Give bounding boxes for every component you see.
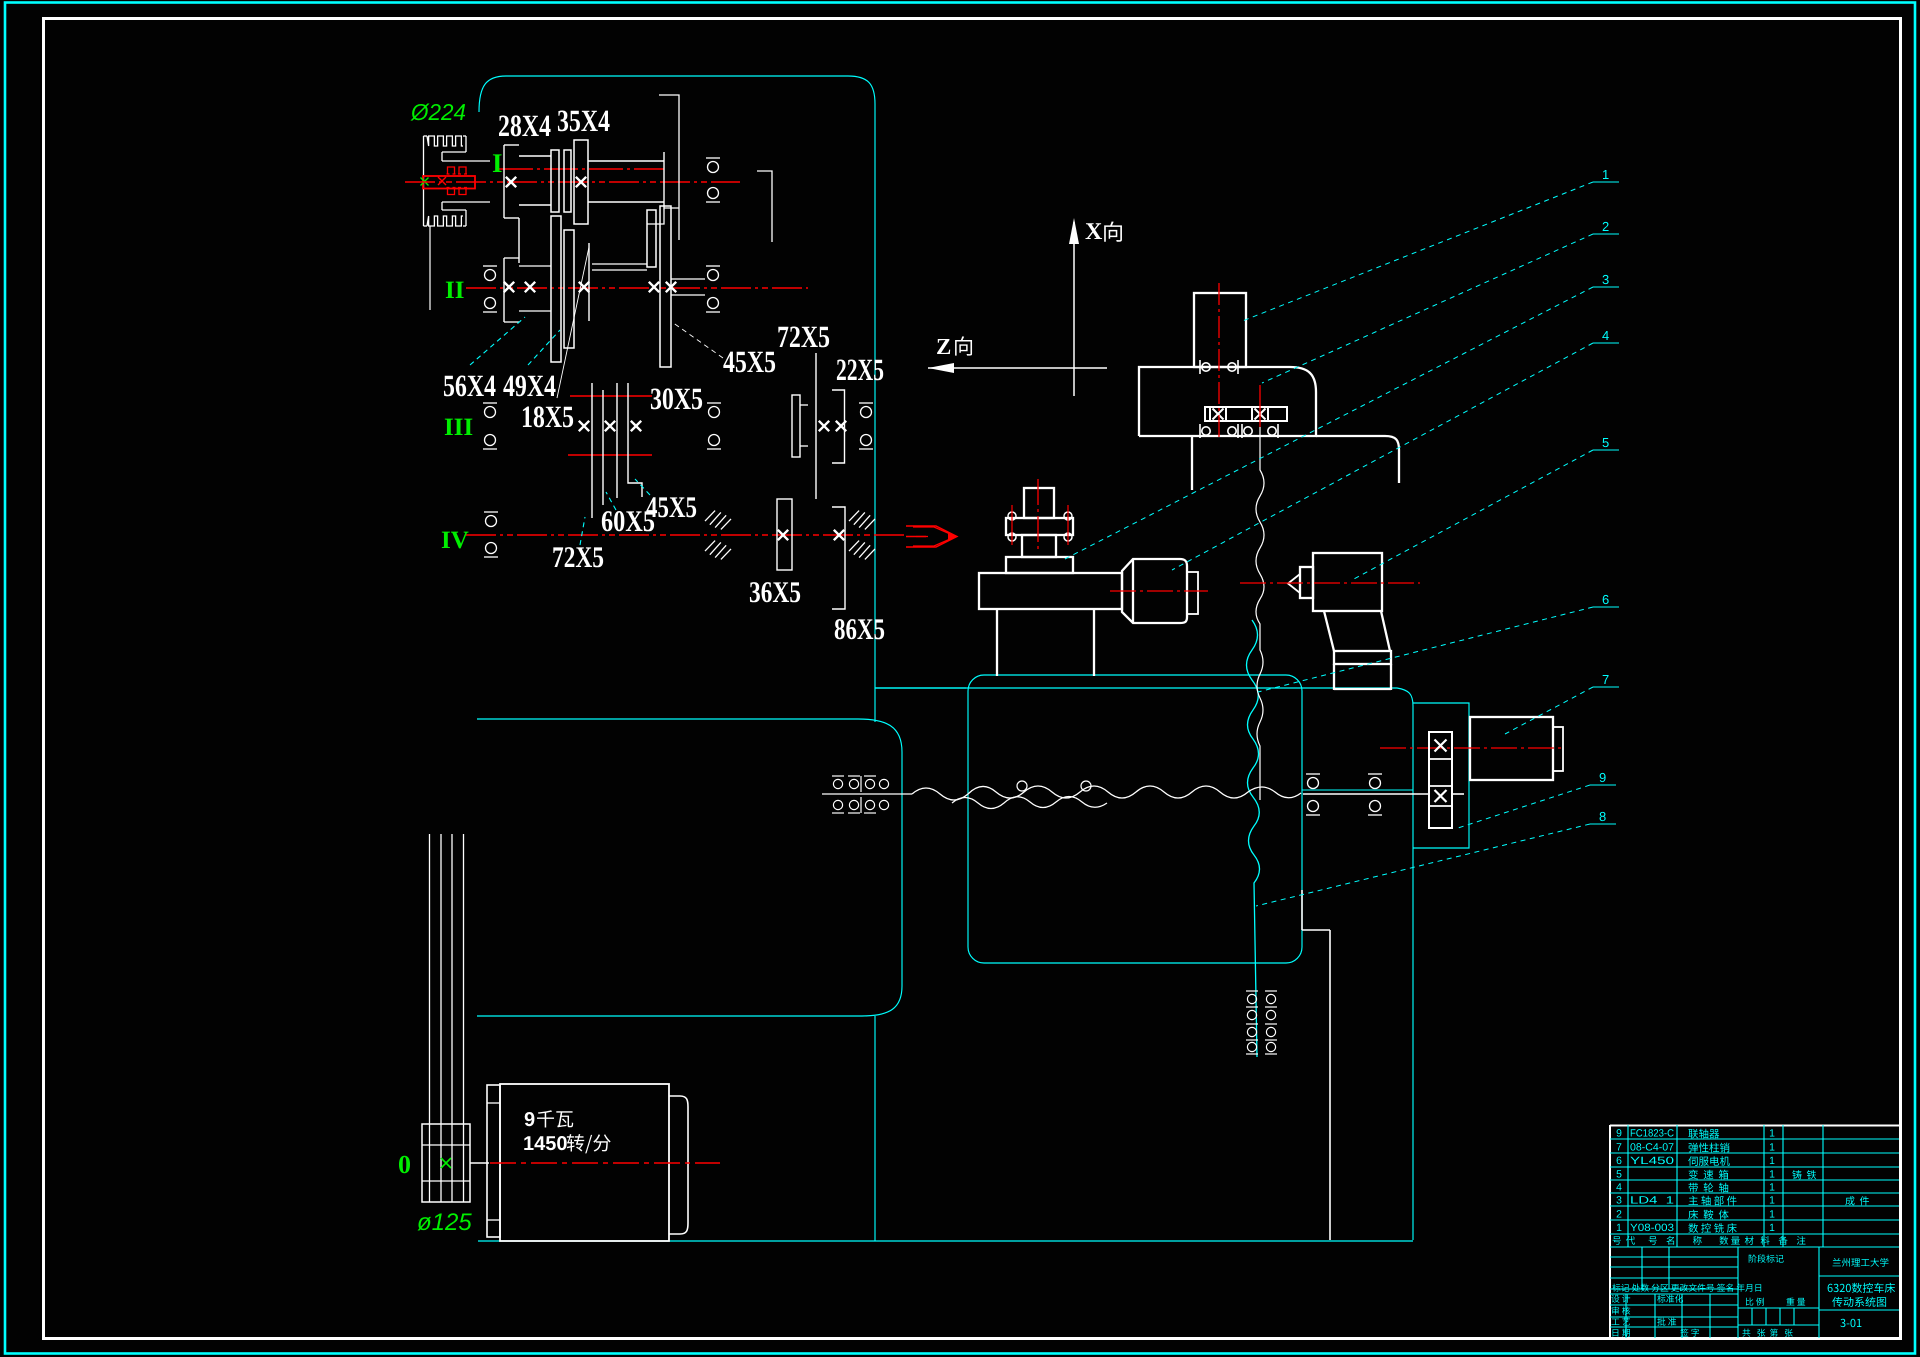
bolt: [1008, 512, 1016, 541]
bearing X: [605, 421, 615, 431]
green cross pulley: [441, 1158, 451, 1168]
shaft I flange: [503, 145, 505, 218]
gear 49X4: [564, 230, 574, 348]
bearing X: [1435, 790, 1447, 802]
leader 7: [1505, 687, 1619, 734]
shaft I end: [663, 152, 665, 210]
Z feed motor: [1470, 717, 1553, 780]
tailstock arm block: [1334, 651, 1391, 664]
hub: [519, 265, 551, 267]
label 30X5: [651, 388, 702, 409]
nut bearing: [1200, 424, 1210, 438]
bearing: [483, 298, 497, 313]
label 28X4: [499, 115, 551, 136]
bed right wall outline: [875, 688, 1413, 1240]
helical gear mark: [705, 538, 732, 562]
nut cell 1: [1210, 407, 1226, 421]
leader 56X4: [470, 317, 525, 365]
leader 45X5 lower: [635, 479, 650, 495]
X arrow: [1069, 218, 1079, 244]
bearing: [1306, 774, 1320, 789]
gear 72X5 tall line: [815, 353, 817, 499]
tailstock body: [1313, 553, 1382, 611]
pulley left edge: [423, 136, 425, 226]
label 45X5 upper: [723, 352, 775, 373]
bearing X: [649, 282, 659, 292]
Z arrow: [928, 363, 954, 373]
bolt centerline: [1011, 505, 1013, 545]
tailstock column top: [1302, 929, 1330, 931]
Z axis label: [937, 339, 950, 354]
feed bearing: [848, 776, 860, 813]
bearing: [707, 403, 721, 418]
housing leg left: [996, 609, 998, 676]
leader 9: [1458, 785, 1616, 828]
gear 86X5: [832, 507, 845, 609]
chuck base: [1006, 557, 1073, 573]
chuck centerline: [1037, 479, 1039, 549]
pulley shaft stub: [470, 1162, 489, 1164]
ballscrew nut housing: [1205, 407, 1287, 421]
label 1450rpm: [567, 1134, 611, 1153]
slide right ledge: [1316, 436, 1399, 483]
leader 4: [1172, 343, 1619, 570]
bearing: [706, 188, 720, 203]
shaft III upper red: [570, 395, 652, 397]
red belt section: [423, 176, 475, 189]
pulley hub bottom: [442, 209, 466, 211]
shaft II centerline: [466, 287, 808, 289]
helical gear mark: [849, 538, 876, 562]
gear 30X5 on II: [647, 210, 656, 267]
leadscrew wavy break: [912, 786, 1301, 800]
bearing: [706, 158, 720, 173]
shaft I body top: [588, 160, 664, 162]
collar left: [588, 243, 590, 321]
red bearing mark: [447, 188, 456, 195]
headstock right edge lower: [874, 686, 876, 722]
label 86X5: [835, 619, 884, 639]
machine base line: [478, 1240, 1413, 1242]
shaft III label: [445, 419, 473, 435]
title block left edge: [1609, 1125, 1611, 1338]
pulley V-grooves bottom: [427, 216, 463, 226]
X screw centerline: [1218, 283, 1220, 441]
bearing X: [525, 282, 535, 292]
bearing X: [836, 421, 846, 431]
green cross: [421, 178, 429, 186]
nut bearing: [1200, 360, 1210, 374]
bearing X: [834, 530, 844, 540]
shaft IV centerline: [466, 534, 905, 536]
bolt: [1064, 512, 1072, 541]
shaft II label: [446, 282, 464, 298]
hub to shaft bottom: [442, 201, 490, 203]
leader 18X5: [557, 247, 589, 398]
pulley lower line: [429, 226, 431, 310]
bearing: [483, 435, 497, 450]
nut bearing: [1242, 424, 1252, 438]
spindle arrow: [906, 526, 957, 547]
bearing: [1368, 774, 1382, 789]
label 72X5 lower: [553, 547, 603, 567]
gear 56X4: [551, 216, 561, 362]
bearing: [1306, 801, 1320, 816]
leader 60X5: [606, 492, 616, 510]
pulley right edge bottom: [465, 210, 467, 226]
leader 8: [1256, 824, 1616, 906]
tailstock center point: [1288, 574, 1300, 593]
red bearing mark: [458, 167, 467, 174]
spindle motor block: [1122, 559, 1187, 623]
pulley dia 125: [418, 1213, 472, 1230]
bolt centerline: [1067, 505, 1069, 545]
label 22X5: [837, 359, 883, 380]
feed bearing: [832, 776, 844, 813]
gear 22X5 bracket: [832, 390, 845, 463]
leadscrew wavy second strand: [952, 797, 1107, 809]
label 56X4: [444, 375, 496, 396]
headstock housing outline: [479, 76, 875, 686]
X axis line: [1073, 222, 1075, 396]
motor pulley: [422, 1124, 470, 1202]
nut bearing: [1228, 360, 1238, 374]
housing leg right: [1093, 609, 1095, 676]
bearing: [707, 435, 721, 450]
bearing: [706, 266, 720, 281]
leader 1: [1240, 182, 1619, 322]
shaft II flange: [503, 258, 505, 322]
bearing X: [1435, 740, 1447, 752]
tailstock arm: [1324, 611, 1390, 651]
carriage saddle outline: [968, 675, 1302, 963]
shaft O label: [399, 1156, 410, 1174]
pulley hub line top: [422, 1144, 470, 1146]
shaft I body bottom: [588, 201, 664, 203]
motor centerline: [490, 1162, 720, 1164]
label 9kW: [537, 1110, 573, 1127]
shaft I label: [493, 154, 502, 172]
bearing X: [778, 530, 788, 540]
bearing: [483, 266, 497, 281]
tool arrow symbol: [913, 527, 956, 546]
bearing: [706, 298, 720, 313]
tailstock column edge: [1329, 930, 1331, 1240]
bearing X: [579, 421, 589, 431]
leader 6: [1258, 607, 1619, 692]
bearing: [1368, 801, 1382, 816]
bearing X: [1213, 409, 1224, 420]
chuck flange: [1006, 518, 1073, 535]
belt line: [440, 834, 442, 1202]
label 36X5: [750, 582, 800, 602]
bearing: [859, 403, 873, 418]
gear 28X4: [551, 150, 559, 212]
screw end bearings: [1265, 991, 1277, 1054]
base left vertical: [874, 1016, 876, 1241]
bearing X: [666, 282, 676, 292]
shaft I upper line: [499, 168, 664, 170]
bearing X: [631, 421, 641, 431]
chuck stem: [1022, 535, 1056, 557]
bearing X: [579, 282, 589, 292]
leader 2: [1262, 234, 1619, 383]
leadscrew bearing block: [1429, 732, 1452, 828]
bed top line: [875, 687, 966, 689]
shaft I centerline: [405, 181, 740, 183]
shaft IV label: [442, 532, 469, 549]
X axis label: [1085, 223, 1102, 239]
slide left leg: [1191, 436, 1193, 490]
tailstock arm base: [1334, 688, 1391, 690]
leadscrew right end: [1303, 793, 1429, 795]
hub to shaft top: [442, 160, 490, 162]
label 18X5: [523, 406, 573, 427]
gear on III right: [792, 395, 800, 457]
tailstock column link: [1301, 890, 1303, 930]
Z motor end: [1553, 727, 1563, 771]
screw end bearings: [1246, 991, 1258, 1054]
leader 3: [1063, 287, 1619, 560]
leader 49X4: [528, 330, 560, 365]
feed gearbox housing outline: [477, 719, 902, 1016]
label 60X5: [602, 511, 654, 531]
helical gear mark: [849, 508, 876, 532]
title block grid: [1610, 1125, 1899, 1338]
pulley hub line bottom: [422, 1180, 470, 1182]
hub line: [519, 204, 551, 206]
red bearing mark: [458, 188, 467, 195]
pulley V-grooves top: [427, 136, 463, 146]
gear 45X5 step: [628, 383, 642, 497]
hub line: [519, 155, 551, 157]
title block top edge: [1610, 1125, 1899, 1127]
parts list text: [1617, 1129, 1622, 1136]
bearing: [483, 403, 497, 418]
Z axis line: [928, 367, 1107, 369]
belt line: [451, 834, 453, 1202]
screw break line down: [1256, 427, 1264, 800]
label 72X5 upper: [778, 326, 829, 347]
bearing X: [819, 421, 829, 431]
motor end bell: [669, 1096, 688, 1234]
Z motor centerline: [1380, 747, 1565, 749]
X motor column: [1194, 293, 1246, 367]
feed bearing: [864, 776, 876, 813]
bearing X: [1255, 409, 1266, 420]
label 49X4: [503, 375, 555, 396]
gear 35X4: [574, 140, 588, 224]
spindle housing: [979, 573, 1122, 609]
gear 72X5 line: [591, 383, 593, 518]
tailstock centerline: [1240, 582, 1420, 584]
pulley dia 224: [410, 104, 465, 121]
gear line: [616, 383, 618, 498]
gear 45X5 on II: [660, 206, 671, 367]
tailstock quill: [1300, 567, 1313, 598]
hub: [519, 310, 551, 312]
housing wall right: [647, 95, 772, 242]
leader 5: [1352, 450, 1619, 580]
bearing X: [504, 282, 514, 292]
nut cell 2: [1252, 407, 1268, 421]
shaft III lower red: [568, 454, 652, 456]
label 35X4: [558, 110, 610, 131]
pulley right edge top: [465, 136, 467, 152]
cross feed line: [1302, 789, 1413, 791]
pulley hub top: [442, 151, 466, 153]
gear line: [602, 390, 604, 505]
cross slide body: [1139, 367, 1316, 436]
belt line: [463, 834, 465, 1202]
belt line: [429, 834, 431, 1202]
motor mount bracket: [487, 1085, 500, 1237]
label 45X5 lower: [646, 497, 696, 517]
nut bearing: [1228, 424, 1238, 438]
bearing: [484, 512, 498, 527]
leadscrew line left: [822, 793, 912, 795]
cross slide housing right: [1413, 703, 1469, 848]
spacer: [564, 150, 571, 212]
leader 45X5: [672, 322, 723, 358]
helical gear mark: [705, 508, 732, 532]
leader 72X5 lower: [580, 517, 585, 545]
bearing: [484, 543, 498, 558]
spindle motor centerline: [1110, 590, 1208, 592]
bearing: [859, 435, 873, 450]
bearing X: [506, 177, 516, 187]
gear 36X5: [777, 499, 792, 570]
bearing X: [576, 177, 586, 187]
motor body: [500, 1084, 669, 1241]
red cross: [438, 177, 446, 185]
motor end small: [1187, 572, 1198, 614]
red bearing mark: [447, 167, 456, 174]
casting break wavy line: [1247, 620, 1260, 1057]
nut centerline: [1259, 385, 1261, 427]
chuck top block: [1024, 488, 1054, 518]
nut bearing: [1268, 424, 1278, 438]
